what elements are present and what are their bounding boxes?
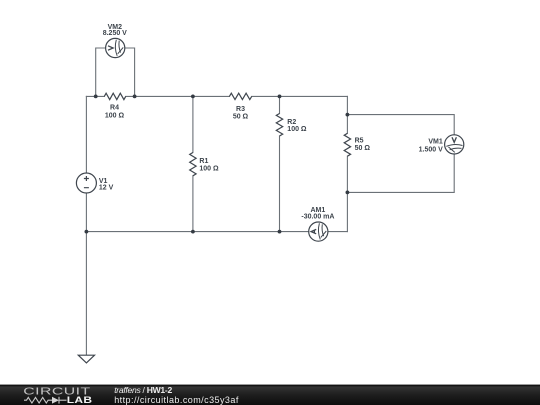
svg-text:100 Ω: 100 Ω bbox=[105, 112, 125, 119]
svg-text:R1: R1 bbox=[199, 158, 208, 165]
svg-text:VM1: VM1 bbox=[428, 139, 443, 146]
svg-text:http://circuitlab.com/c35y3af: http://circuitlab.com/c35y3af bbox=[114, 395, 239, 405]
svg-text:8.250 V: 8.250 V bbox=[103, 30, 127, 37]
svg-text:1.500 V: 1.500 V bbox=[419, 147, 443, 154]
svg-text:50 Ω: 50 Ω bbox=[233, 114, 249, 121]
svg-text:-30.00 mA: -30.00 mA bbox=[301, 214, 334, 221]
svg-text:50 Ω: 50 Ω bbox=[355, 145, 371, 152]
svg-text:LAB: LAB bbox=[67, 395, 93, 405]
svg-text:R2: R2 bbox=[287, 119, 296, 126]
svg-text:100 Ω: 100 Ω bbox=[199, 166, 219, 173]
svg-text:R4: R4 bbox=[110, 104, 119, 111]
svg-text:12 V: 12 V bbox=[99, 184, 114, 191]
svg-text:100 Ω: 100 Ω bbox=[287, 126, 307, 133]
svg-text:traffens / HW1-2: traffens / HW1-2 bbox=[114, 385, 172, 395]
svg-text:R5: R5 bbox=[355, 137, 364, 144]
svg-text:R3: R3 bbox=[236, 106, 245, 113]
